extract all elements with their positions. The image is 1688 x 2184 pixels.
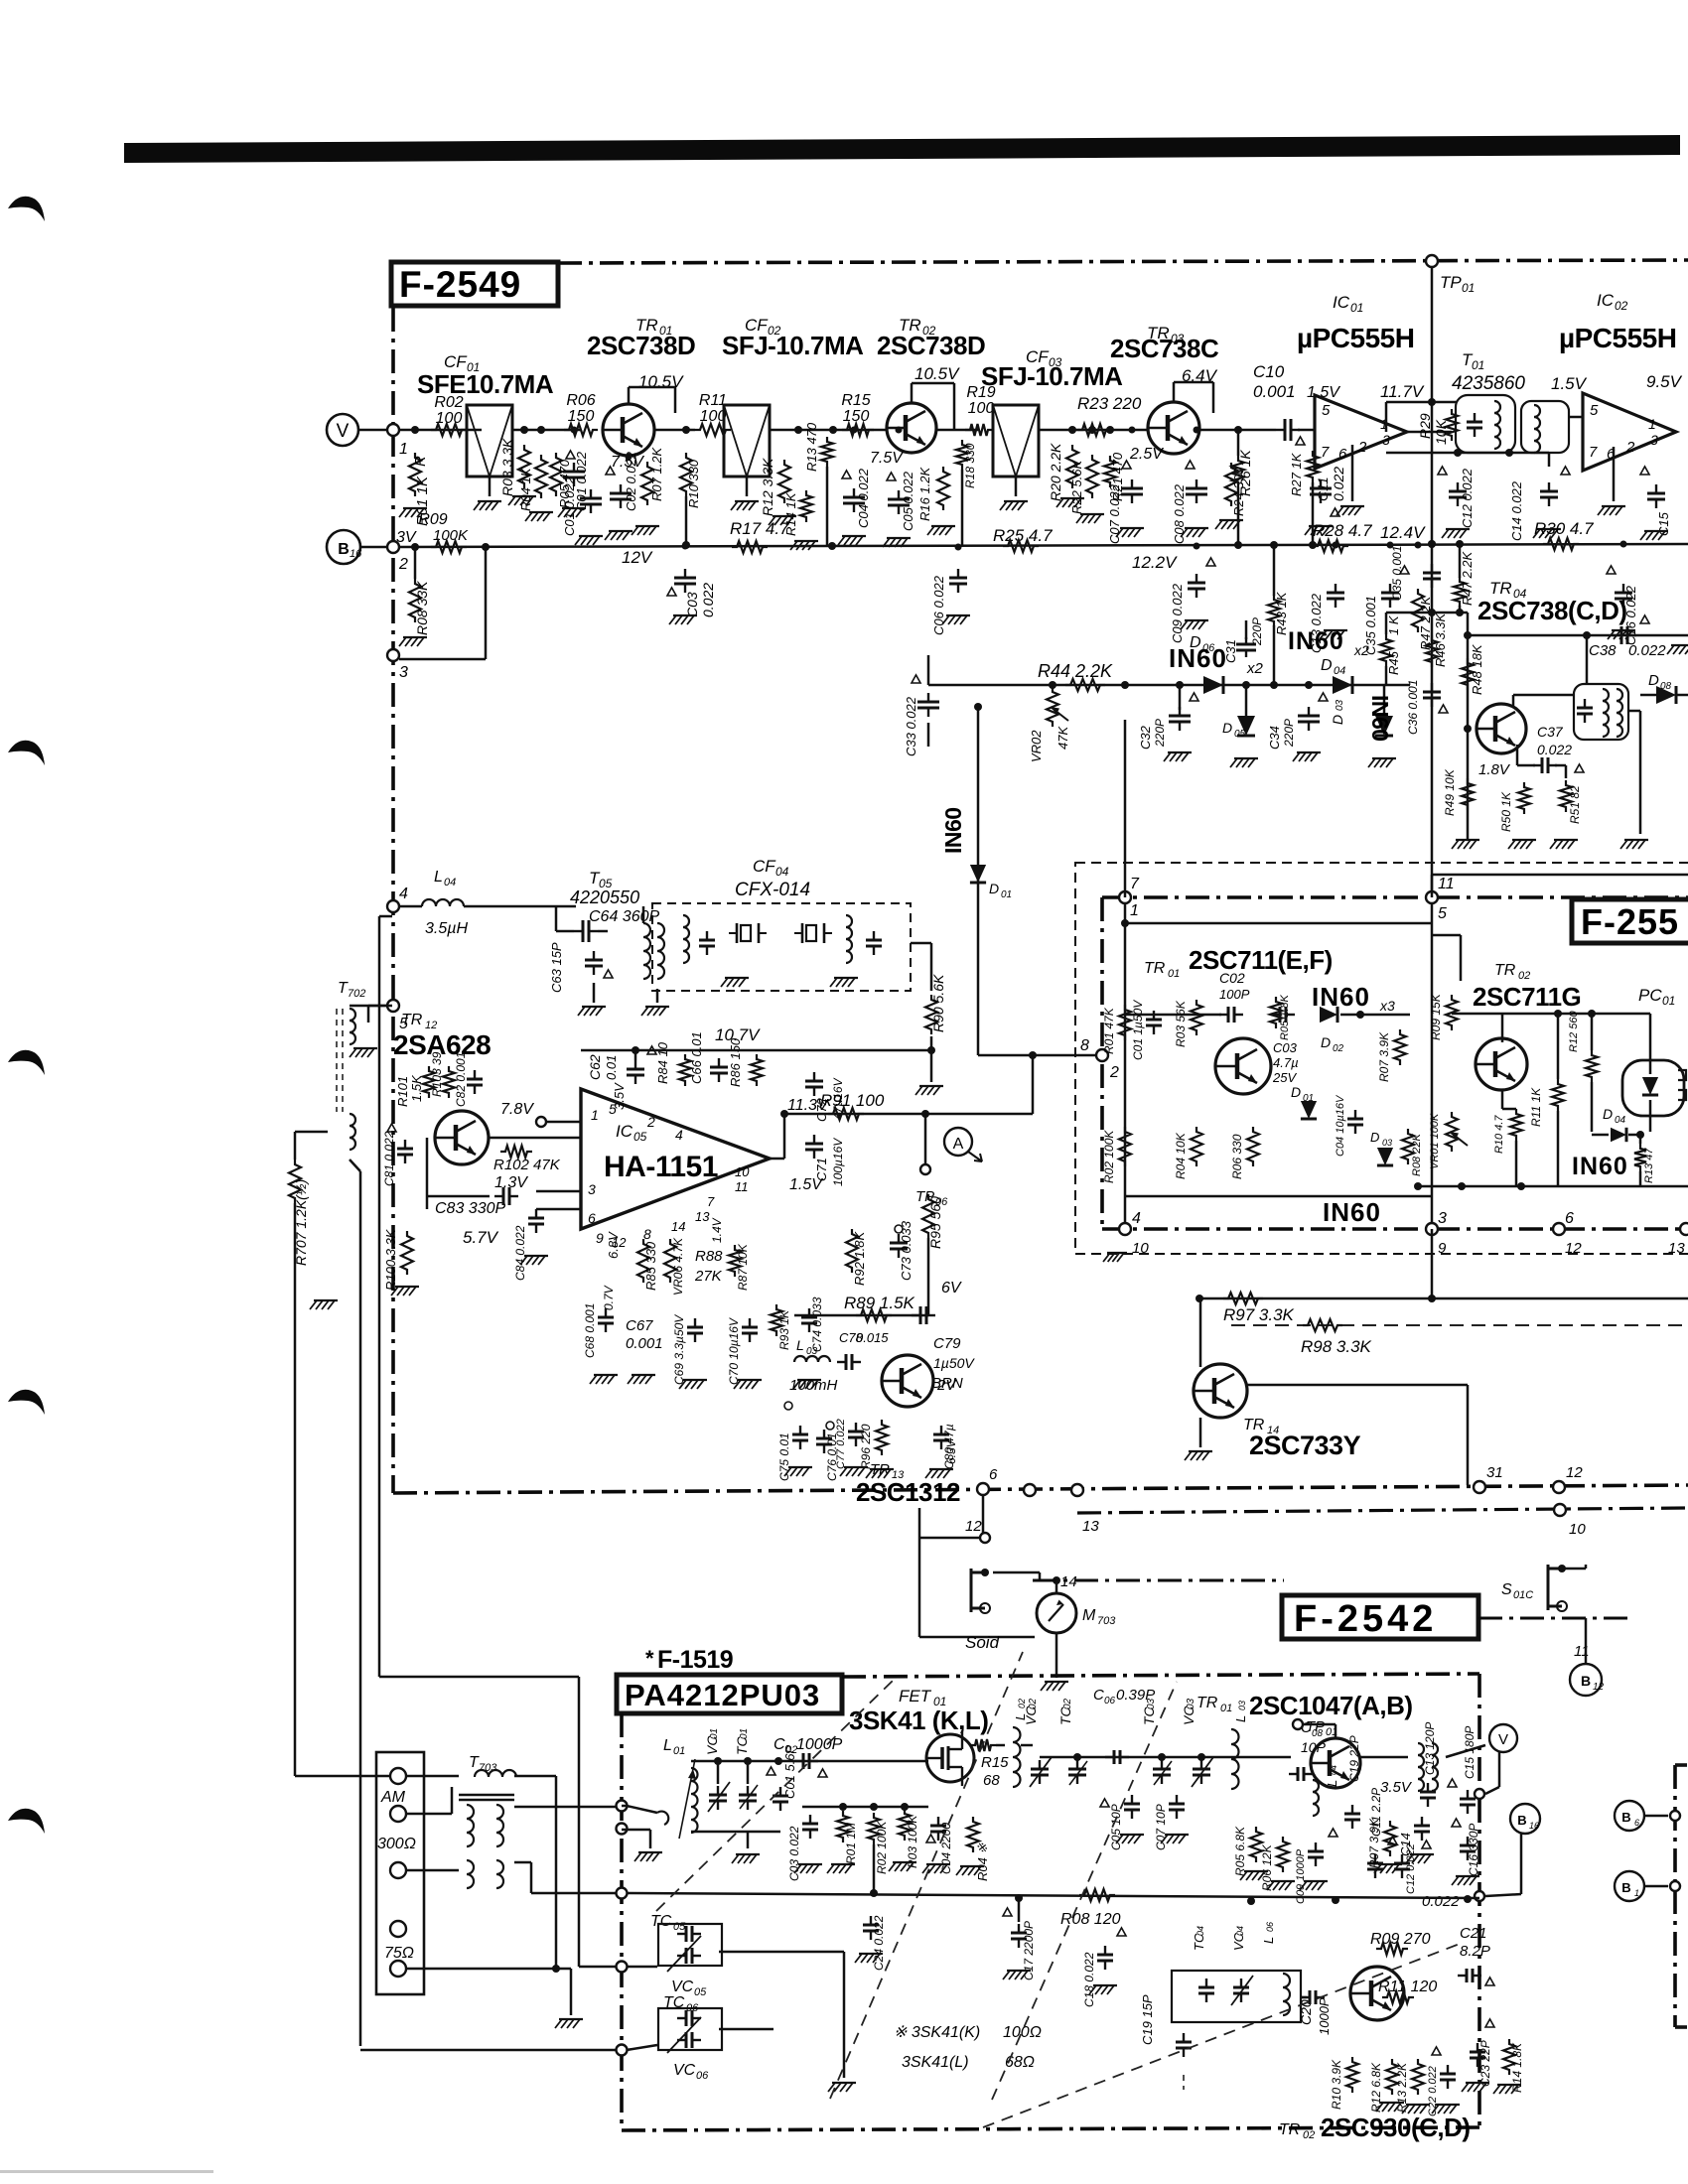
svg-text:100µ16V: 100µ16V [831,1138,845,1186]
svg-text:01: 01 [709,1728,720,1739]
svg-text:7.5V: 7.5V [870,450,904,467]
svg-text:1: 1 [591,1107,599,1123]
svg-text:2SC738(C,D): 2SC738(C,D) [1477,596,1627,625]
svg-text:C14: C14 [1398,1833,1413,1856]
svg-text:0.022: 0.022 [1331,467,1346,501]
svg-text:R08 33K: R08 33K [414,581,430,635]
svg-text:2SC733Y: 2SC733Y [1249,1431,1361,1460]
svg-text:2SC930(C,D): 2SC930(C,D) [1321,2113,1471,2142]
svg-text:R103 39: R103 39 [430,1051,444,1097]
svg-text:C01 0.022: C01 0.022 [562,476,577,536]
svg-text:150: 150 [568,408,595,425]
svg-text:2SC1312: 2SC1312 [856,1477,960,1507]
svg-text:R08 120: R08 120 [1060,1911,1121,1928]
svg-text:2: 2 [646,1114,655,1130]
svg-text:R11 1K: R11 1K [1529,1087,1543,1127]
svg-text:6: 6 [1565,1210,1574,1227]
svg-text:C12 0.022: C12 0.022 [1460,468,1475,528]
svg-text:D: D [1648,672,1659,689]
svg-text:R18 330: R18 330 [963,443,977,488]
svg-text:C31: C31 [1223,639,1238,663]
svg-text:03: 03 [1335,699,1345,711]
svg-text:12: 12 [965,1518,982,1535]
svg-text:C67: C67 [626,1317,653,1334]
svg-text:1000P: 1000P [796,1736,843,1753]
svg-text:2: 2 [1357,439,1367,456]
svg-text:C18 0.022: C18 0.022 [1082,1952,1096,2007]
svg-text:3SK41 (K,L): 3SK41 (K,L) [849,1706,988,1735]
svg-text:2SC738D: 2SC738D [587,331,695,360]
svg-text:R09: R09 [418,511,447,528]
svg-text:VR01 100K: VR01 100K [1429,1113,1441,1169]
svg-text:C06 0.022: C06 0.022 [931,575,946,635]
svg-text:TR: TR [899,316,921,335]
svg-text:B: B [1517,1813,1526,1828]
svg-text:08: 08 [1660,681,1672,692]
svg-text:47K: 47K [1055,726,1070,750]
svg-text:04: 04 [1235,1926,1245,1936]
svg-text:4235860: 4235860 [1452,373,1525,394]
svg-text:02: 02 [1028,1698,1039,1709]
svg-text:C84 0.022: C84 0.022 [513,1225,527,1281]
svg-text:R45: R45 [1386,650,1401,675]
svg-text:C68 0.001: C68 0.001 [583,1303,597,1358]
svg-text:AM: AM [380,1789,406,1806]
svg-text:06: 06 [1202,642,1215,654]
svg-text:R09 270: R09 270 [1370,1931,1431,1948]
svg-text:16: 16 [1529,1821,1539,1831]
svg-text:11.7V: 11.7V [1380,382,1425,401]
svg-text:06: 06 [1265,1922,1275,1932]
svg-text:06: 06 [1104,1696,1116,1706]
svg-text:D: D [1321,1034,1331,1050]
svg-text:05: 05 [633,1130,647,1144]
svg-text:R17 4.7: R17 4.7 [730,519,789,538]
svg-text:TR: TR [1279,2121,1301,2138]
svg-text:B: B [1581,1673,1591,1689]
svg-text:R44 2.2K: R44 2.2K [1038,661,1113,681]
svg-text:C33 0.022: C33 0.022 [904,696,918,756]
svg-text:1.5K: 1.5K [409,1074,424,1102]
svg-text:M: M [1082,1607,1096,1624]
svg-text:R43 1K: R43 1K [1274,591,1289,635]
svg-text:8.2P: 8.2P [1460,1943,1490,1960]
svg-text:4220550: 4220550 [570,887,639,907]
svg-text:R09 15K: R09 15K [1429,993,1443,1040]
svg-text:C76 0.01: C76 0.01 [825,1433,839,1481]
svg-text:R102 47K: R102 47K [493,1157,561,1173]
svg-text:R03 100K: R03 100K [906,1815,919,1868]
svg-text:D: D [1330,715,1345,725]
svg-text:13: 13 [1082,1518,1099,1535]
svg-text:R88: R88 [695,1248,723,1265]
svg-text:02: 02 [922,324,936,338]
svg-text:FET: FET [899,1687,932,1706]
svg-text:R100 3.3K: R100 3.3K [383,1228,398,1291]
svg-text:03: 03 [1186,1698,1196,1709]
svg-text:2V: 2V [936,1377,957,1394]
svg-text:6: 6 [1634,1818,1639,1828]
svg-text:01: 01 [739,1728,750,1739]
svg-text:C02: C02 [1219,970,1245,986]
svg-text:R93 1K: R93 1K [777,1309,791,1350]
svg-text:1: 1 [1634,1888,1639,1898]
svg-text:R48 18K: R48 18K [1470,643,1484,695]
svg-text:01C: 01C [1513,1589,1533,1601]
svg-text:0.022: 0.022 [1537,742,1572,757]
svg-text:F-2549: F-2549 [399,264,521,305]
svg-text:C01 5.6P: C01 5.6P [782,1744,797,1799]
svg-text:µPC555H: µPC555H [1559,323,1676,353]
svg-text:02: 02 [1062,1698,1073,1709]
svg-text:03: 03 [1382,1138,1392,1148]
svg-text:5.7V: 5.7V [463,1228,499,1247]
svg-text:R08 22K: R08 22K [1411,1134,1423,1176]
svg-text:2: 2 [1109,1064,1119,1081]
svg-text:02: 02 [1333,1043,1344,1054]
svg-text:TR: TR [1494,962,1516,979]
svg-text:F-2542: F-2542 [1294,1598,1437,1640]
svg-text:R01 1M: R01 1M [844,1823,858,1864]
svg-text:C64 360P: C64 360P [589,908,659,925]
svg-text:C38: C38 [1589,642,1617,659]
svg-text:100mH: 100mH [789,1377,838,1394]
svg-text:D: D [1603,1106,1613,1122]
svg-text:R50 1K: R50 1K [1499,791,1513,832]
svg-text:06: 06 [696,2070,709,2082]
svg-text:05: 05 [1234,729,1246,740]
svg-text:2: 2 [398,556,408,573]
svg-text:R98 3.3K: R98 3.3K [1301,1337,1372,1356]
svg-text:01: 01 [673,1745,685,1757]
svg-text:100: 100 [968,400,995,417]
svg-text:x2: x2 [1353,642,1369,658]
svg-text:R04 10K: R04 10K [1174,1132,1188,1179]
svg-text:31: 31 [1486,1464,1503,1481]
svg-text:3: 3 [1650,432,1658,448]
svg-text:2SC738C: 2SC738C [1110,334,1219,363]
svg-text:1 K: 1 K [1386,614,1401,635]
svg-text:IN60: IN60 [940,807,966,854]
svg-text:2SC711G: 2SC711G [1473,982,1581,1012]
svg-text:01: 01 [1662,994,1675,1008]
svg-text:Soid: Soid [965,1633,1000,1652]
svg-text:µPC555H: µPC555H [1297,323,1414,353]
svg-text:C16 330P: C16 330P [1467,1824,1480,1876]
svg-text:C05 0.022: C05 0.022 [901,471,915,531]
svg-text:R84 10: R84 10 [655,1041,670,1084]
svg-text:03: 03 [1146,1698,1157,1709]
svg-text:68: 68 [983,1772,1000,1789]
svg-text:10.5V: 10.5V [914,364,960,383]
svg-text:R02 100K: R02 100K [875,1821,889,1874]
svg-text:01: 01 [1168,968,1180,980]
svg-text:C70 10µ16V: C70 10µ16V [727,1317,741,1385]
svg-text:D: D [1190,634,1201,651]
svg-text:VR06 4.7K: VR06 4.7K [671,1237,685,1296]
svg-text:R47 2.2K: R47 2.2K [1460,550,1475,606]
svg-text:C: C [1093,1687,1104,1704]
svg-text:SFJ-10.7MA: SFJ-10.7MA [722,331,864,360]
svg-text:B: B [1621,1810,1630,1825]
svg-text:6.8V: 6.8V [606,1231,621,1259]
svg-text:10: 10 [1569,1521,1586,1538]
svg-text:1.4V: 1.4V [710,1217,724,1243]
svg-text:8: 8 [643,1226,651,1242]
svg-text:1: 1 [1130,902,1139,919]
svg-text:R12 3.3K: R12 3.3K [760,458,775,516]
svg-text:1.3V: 1.3V [494,1174,528,1191]
svg-text:7: 7 [1321,444,1330,461]
svg-text:11: 11 [735,1179,749,1194]
svg-text:C14 0.022: C14 0.022 [1509,480,1524,541]
svg-text:R51 82: R51 82 [1568,785,1582,824]
svg-text:C08 0.022: C08 0.022 [1172,483,1187,544]
svg-text:TC: TC [650,1913,672,1930]
svg-text:C34: C34 [1267,726,1282,750]
svg-text:9: 9 [1438,1240,1447,1257]
svg-text:VR02: VR02 [1029,730,1044,762]
svg-text:C01 1µ50V: C01 1µ50V [1131,1000,1145,1060]
svg-text:R92 1.8K: R92 1.8K [852,1230,867,1286]
svg-text:04: 04 [1334,665,1345,677]
svg-text:6: 6 [989,1466,998,1483]
svg-text:01: 01 [1220,1703,1232,1714]
svg-text:220P: 220P [1250,617,1264,646]
svg-text:C74 0.033: C74 0.033 [810,1297,824,1352]
svg-text:C62: C62 [587,1054,603,1080]
svg-text:*: * [645,1646,654,1671]
svg-text:7: 7 [1589,444,1598,461]
svg-text:C73 0.033: C73 0.033 [899,1220,914,1281]
svg-text:VC: VC [673,2062,696,2079]
svg-text:10: 10 [735,1164,750,1179]
svg-text:C07 0.022: C07 0.022 [1107,483,1122,544]
svg-text:IC: IC [616,1122,633,1141]
svg-text:PA4212PU03: PA4212PU03 [625,1678,820,1712]
svg-text:L: L [663,1737,672,1754]
svg-text:R05 6.8K: R05 6.8K [1233,1826,1247,1876]
svg-text:3.5V: 3.5V [1380,1779,1413,1796]
svg-text:V: V [1498,1731,1508,1748]
svg-text:C37: C37 [1537,724,1564,740]
svg-text:4: 4 [399,886,408,902]
svg-text:TP: TP [1306,1718,1325,1735]
svg-text:16: 16 [350,548,362,560]
svg-text:R22 5.6K: R22 5.6K [1069,459,1084,514]
svg-text:100P: 100P [1219,987,1250,1002]
svg-text:R28 4.7: R28 4.7 [1313,521,1372,540]
svg-text:3: 3 [1438,1210,1447,1227]
svg-text:R03 56K: R03 56K [1174,1000,1188,1047]
svg-text:4: 4 [1132,1210,1141,1227]
svg-text:02: 02 [1615,299,1628,313]
svg-text:1: 1 [1648,416,1656,432]
svg-text:R07 1.2K: R07 1.2K [649,446,664,501]
svg-text:12.4V: 12.4V [1380,523,1426,542]
svg-text:R06: R06 [566,392,595,409]
svg-text:27K: 27K [694,1268,723,1285]
svg-text:4: 4 [675,1127,683,1143]
svg-text:R97 3.3K: R97 3.3K [1223,1305,1295,1324]
svg-text:R20 2.2K: R20 2.2K [1048,443,1063,501]
svg-text:9.5V: 9.5V [1646,372,1683,391]
svg-text:C09 1000P: C09 1000P [1295,1848,1307,1904]
svg-text:02: 02 [1303,2129,1315,2141]
svg-text:1.8V: 1.8V [1478,761,1511,778]
svg-text:R06 330: R06 330 [1230,1134,1244,1179]
svg-text:100: 100 [436,410,463,427]
svg-text:C10: C10 [1253,362,1285,381]
svg-text:703: 703 [1097,1615,1116,1627]
svg-text:0.001: 0.001 [1253,382,1296,401]
svg-text:R30 4.7: R30 4.7 [1534,519,1594,538]
svg-text:SFJ-10.7MA: SFJ-10.7MA [981,361,1123,391]
svg-text:L: L [434,869,443,886]
svg-text:0.01: 0.01 [604,1055,619,1080]
svg-text:0.022: 0.022 [1422,1893,1460,1910]
svg-text:3: 3 [588,1181,596,1197]
svg-text:0.022: 0.022 [1628,642,1666,659]
svg-text:C23 22P: C23 22P [1478,2040,1492,2087]
svg-text:1.5V: 1.5V [789,1176,823,1193]
svg-text:04: 04 [1615,1115,1626,1126]
svg-text:14: 14 [671,1219,685,1234]
svg-text:1µ50V: 1µ50V [933,1355,975,1371]
svg-text:SFE10.7MA: SFE10.7MA [417,369,554,399]
svg-text:C81 0.022: C81 0.022 [382,1131,396,1186]
svg-text:2: 2 [1625,439,1635,456]
svg-text:05: 05 [673,1921,686,1933]
svg-text:01: 01 [1472,358,1484,372]
svg-text:0.022: 0.022 [700,583,716,617]
svg-text:3: 3 [399,664,408,681]
svg-text:3: 3 [1382,432,1390,448]
svg-text:3SK41(L): 3SK41(L) [902,2054,969,2071]
svg-text:10K: 10K [1433,419,1449,445]
svg-text:7: 7 [1130,876,1140,892]
svg-text:100: 100 [700,408,727,425]
svg-text:11: 11 [1438,876,1455,892]
svg-text:C03: C03 [684,592,700,617]
svg-text:6: 6 [588,1210,596,1226]
svg-text:TR: TR [401,1012,423,1028]
svg-text:HA-1151: HA-1151 [604,1151,718,1183]
svg-text:R07 3.9K: R07 3.9K [1367,1818,1381,1868]
svg-text:C19 15P: C19 15P [1140,1994,1155,2045]
svg-text:C21: C21 [1460,1925,1487,1942]
svg-text:03: 03 [806,1346,818,1357]
svg-text:C04 10µ16V: C04 10µ16V [1335,1094,1346,1157]
svg-text:R07 3.9K: R07 3.9K [1377,1031,1391,1082]
svg-text:2SC1047(A,B): 2SC1047(A,B) [1249,1691,1413,1720]
svg-text:IC: IC [1597,291,1615,310]
svg-text:04: 04 [775,865,789,879]
svg-text:3.5µH: 3.5µH [425,920,468,937]
svg-text:C09 0.022: C09 0.022 [1170,583,1185,643]
svg-text:R10 3.9K: R10 3.9K [1330,2059,1343,2110]
svg-text:12: 12 [1566,1464,1583,1481]
svg-text:R10 4.7: R10 4.7 [1493,1115,1505,1154]
svg-text:D: D [1291,1084,1301,1100]
svg-text:C36 0.001: C36 0.001 [1406,680,1420,735]
svg-text:C35 0.001: C35 0.001 [1390,546,1404,601]
svg-text:VC: VC [671,1979,694,1995]
svg-text:R25 4.7: R25 4.7 [993,526,1053,545]
svg-text:0.001: 0.001 [626,1335,663,1352]
svg-text:703: 703 [479,1762,497,1774]
svg-text:12V: 12V [622,548,653,567]
svg-text:D: D [1222,720,1232,736]
svg-text:B: B [338,541,350,558]
svg-text:02: 02 [1518,970,1530,982]
svg-text:CFX-014: CFX-014 [735,880,810,900]
svg-text:R90 5.6K: R90 5.6K [930,974,946,1032]
svg-text:L: L [1233,1715,1248,1722]
svg-text:IN60: IN60 [1572,1153,1628,1180]
svg-text:IN60: IN60 [1367,695,1393,742]
svg-text:1.5V: 1.5V [1551,374,1588,393]
svg-text:220P: 220P [1282,719,1296,748]
svg-text:※ 3SK41(K): ※ 3SK41(K) [894,2024,980,2041]
svg-text:IN60: IN60 [1323,1197,1381,1227]
svg-text:6V: 6V [941,1280,962,1297]
svg-text:C66 0.01: C66 0.01 [689,1031,704,1084]
svg-text:R04 1K: R04 1K [518,467,533,511]
svg-text:TR: TR [870,1461,890,1478]
svg-text:R01 47K: R01 47K [1102,1007,1116,1054]
svg-text:12: 12 [1593,1682,1605,1693]
svg-text:C02 0.022: C02 0.022 [624,451,638,511]
svg-text:R11 120: R11 120 [1378,1979,1437,1995]
svg-text:R85 330: R85 330 [643,1241,658,1291]
svg-text:C03: C03 [1273,1040,1298,1055]
svg-text:S: S [1501,1581,1512,1598]
svg-text:R86 150: R86 150 [728,1037,743,1087]
svg-text:7: 7 [707,1194,715,1209]
svg-text:05: 05 [694,1986,707,1998]
svg-text:03: 03 [1237,1701,1247,1710]
svg-text:3.5V: 3.5V [612,1082,627,1110]
svg-text:x3: x3 [1379,998,1395,1014]
svg-text:5: 5 [1590,402,1599,419]
svg-text:13: 13 [1668,1240,1685,1257]
svg-text:PC: PC [1638,986,1662,1005]
svg-text:R95 560: R95 560 [927,1196,943,1249]
svg-text:R: R [412,456,429,467]
svg-text:TP: TP [1440,273,1462,292]
svg-text:25V: 25V [1272,1070,1297,1085]
svg-text:R16 1.2K: R16 1.2K [917,466,932,521]
svg-text:CF: CF [753,857,776,876]
svg-text:C75 0.01: C75 0.01 [777,1433,791,1481]
svg-text:01: 01 [1303,1093,1314,1104]
svg-text:C04 0.022: C04 0.022 [856,468,871,528]
svg-text:7.8V: 7.8V [500,1101,534,1118]
svg-text:R101: R101 [395,1076,410,1107]
svg-text:L: L [796,1337,804,1353]
svg-text:9: 9 [596,1230,604,1246]
svg-text:D: D [1370,1130,1379,1145]
svg-text:R49 10K: R49 10K [1443,768,1457,816]
svg-text:12.2V: 12.2V [1132,553,1178,572]
svg-text:5: 5 [1322,402,1331,419]
svg-text:R03 3.3K: R03 3.3K [499,438,515,496]
svg-text:C63 15P: C63 15P [549,942,564,993]
svg-text:C79: C79 [933,1335,961,1352]
svg-text:R26 1K: R26 1K [1237,450,1253,496]
svg-text:F-1519: F-1519 [657,1646,733,1674]
